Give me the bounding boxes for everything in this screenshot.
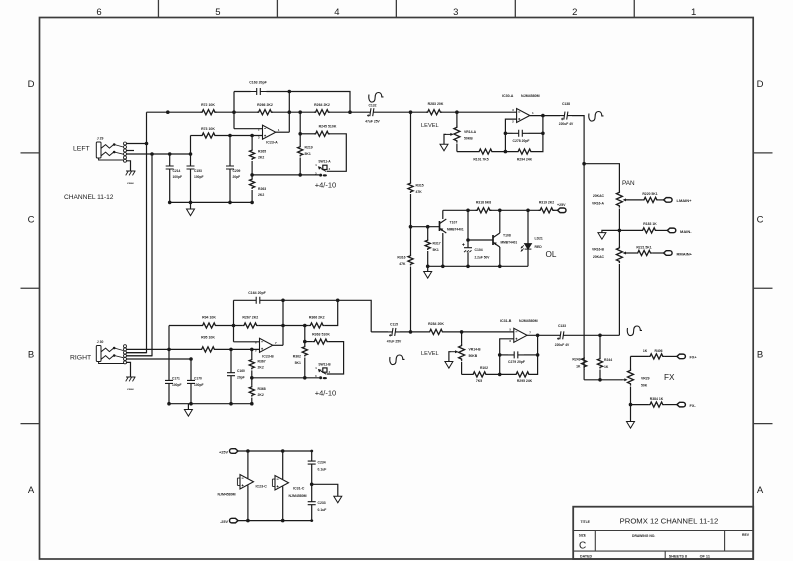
svg-text:20pF: 20pF: [237, 376, 245, 380]
svg-text:+25V: +25V: [557, 203, 566, 207]
svg-text:RMAIN+: RMAIN+: [677, 251, 693, 256]
svg-text:SW11-A: SW11-A: [318, 160, 331, 164]
svg-text:C: C: [28, 214, 35, 225]
svg-text:R384 1K: R384 1K: [650, 397, 664, 401]
svg-text:FX+: FX+: [690, 356, 698, 360]
svg-text:R406: R406: [654, 349, 662, 353]
svg-text:R368: R368: [258, 387, 266, 391]
svg-text:220uF 4V: 220uF 4V: [559, 122, 574, 126]
svg-text:R366 2K2: R366 2K2: [309, 316, 325, 320]
svg-text:R73 10K: R73 10K: [201, 127, 215, 131]
svg-text:47uF 25V: 47uF 25V: [387, 340, 402, 344]
svg-text:D: D: [757, 79, 764, 90]
svg-text:50KB: 50KB: [469, 354, 478, 358]
svg-text:IC31-B: IC31-B: [500, 319, 512, 323]
svg-text:R317: R317: [433, 242, 441, 246]
svg-text:1K: 1K: [576, 365, 581, 369]
svg-text:case: case: [127, 387, 134, 391]
svg-text:VR16-B: VR16-B: [592, 248, 605, 252]
svg-text:R220 5K1: R220 5K1: [642, 192, 657, 196]
svg-text:NJM4580M: NJM4580M: [218, 493, 236, 497]
svg-text:220uF 4V: 220uF 4V: [555, 343, 570, 347]
svg-text:FX: FX: [664, 373, 675, 382]
svg-text:5K1: 5K1: [433, 248, 439, 252]
svg-text:R362: R362: [293, 355, 301, 359]
svg-text:C233: C233: [318, 501, 326, 505]
svg-text:47uF 25V: 47uF 25V: [365, 120, 380, 124]
svg-text:R219: R219: [305, 146, 313, 150]
svg-text:2K2: 2K2: [258, 393, 264, 397]
svg-text:CHANNEL 11-12: CHANNEL 11-12: [64, 194, 114, 201]
svg-text:SIZE: SIZE: [579, 533, 586, 537]
svg-text:R318 6K8: R318 6K8: [476, 201, 491, 205]
svg-text:C104: C104: [475, 248, 483, 252]
svg-text:SHEETS 8: SHEETS 8: [669, 554, 687, 558]
svg-text:C160: C160: [237, 369, 245, 373]
svg-text:R102: R102: [480, 366, 488, 370]
svg-text:R244: R244: [604, 358, 612, 362]
svg-text:R266 2K2: R266 2K2: [257, 103, 273, 107]
svg-text:2: 2: [572, 7, 577, 18]
svg-text:-25V: -25V: [220, 520, 228, 524]
svg-text:1K: 1K: [643, 349, 648, 353]
svg-text:PROMX 12 CHANNEL 11-12: PROMX 12 CHANNEL 11-12: [620, 516, 719, 525]
svg-text:R367: R367: [258, 360, 266, 364]
svg-text:C209: C209: [233, 169, 241, 173]
svg-text:T107: T107: [450, 221, 458, 225]
svg-text:IC23-A: IC23-A: [266, 141, 278, 145]
svg-text:2K2: 2K2: [258, 366, 264, 370]
svg-text:OL: OL: [546, 250, 557, 259]
svg-text:C132: C132: [368, 104, 376, 108]
svg-text:C171: C171: [172, 377, 180, 381]
svg-text:C214: C214: [173, 169, 181, 173]
svg-text:R243: R243: [572, 358, 580, 362]
svg-text:C115: C115: [390, 322, 398, 326]
svg-text:R283 20K: R283 20K: [428, 102, 444, 106]
svg-text:5: 5: [215, 7, 220, 18]
svg-text:case: case: [127, 181, 134, 185]
svg-text:R221 5K1: R221 5K1: [636, 245, 651, 249]
svg-text:C163 20pF: C163 20pF: [249, 81, 267, 85]
svg-text:B: B: [28, 350, 34, 361]
svg-text:R294 24K: R294 24K: [517, 158, 533, 162]
svg-text:C133: C133: [558, 324, 566, 328]
svg-text:100pF: 100pF: [194, 383, 204, 387]
svg-text:C278 20pF: C278 20pF: [513, 139, 530, 143]
svg-text:20KAC: 20KAC: [593, 194, 605, 198]
svg-text:T108: T108: [503, 234, 511, 238]
svg-text:100pF: 100pF: [194, 175, 204, 179]
svg-text:VR16-A: VR16-A: [592, 202, 605, 206]
svg-text:C164 20pF: C164 20pF: [248, 291, 266, 295]
svg-text:NJM4580M: NJM4580M: [289, 494, 307, 498]
svg-text:5K1: 5K1: [305, 152, 311, 156]
svg-text:R315: R315: [416, 184, 424, 188]
svg-text:R245 510K: R245 510K: [319, 125, 337, 129]
svg-text:NJM4580M: NJM4580M: [521, 94, 540, 98]
svg-text:OF 11: OF 11: [700, 554, 710, 558]
svg-text:LEVEL: LEVEL: [421, 123, 439, 129]
svg-text:50KB: 50KB: [464, 137, 473, 141]
svg-text:7K5: 7K5: [476, 379, 482, 383]
svg-text:+4/-10: +4/-10: [315, 181, 336, 190]
svg-text:IC23-B: IC23-B: [262, 355, 274, 359]
svg-text:SW11-B: SW11-B: [318, 362, 331, 366]
svg-text:IC23-C: IC23-C: [256, 485, 268, 489]
svg-text:C234: C234: [318, 461, 326, 465]
svg-text:J 29: J 29: [97, 137, 104, 141]
svg-text:R363 510K: R363 510K: [312, 333, 330, 337]
svg-text:100pF: 100pF: [173, 175, 183, 179]
svg-text:R316: R316: [397, 256, 405, 260]
svg-text:MMBT4401: MMBT4401: [501, 241, 518, 245]
svg-text:2K2: 2K2: [258, 193, 264, 197]
svg-text:R284 20K: R284 20K: [428, 322, 444, 326]
svg-text:D: D: [28, 79, 35, 90]
svg-text:VR14-B: VR14-B: [469, 348, 482, 352]
svg-text:C153: C153: [194, 169, 202, 173]
svg-text:C170: C170: [194, 377, 202, 381]
svg-text:20KAC: 20KAC: [593, 255, 605, 259]
svg-text:IC31-C: IC31-C: [293, 487, 305, 491]
svg-text:R264 2K2: R264 2K2: [314, 103, 330, 107]
svg-text:MMBT4401: MMBT4401: [447, 228, 464, 232]
svg-text:5K1: 5K1: [295, 361, 301, 365]
svg-text:3: 3: [453, 7, 458, 18]
svg-text:R265: R265: [258, 150, 266, 154]
svg-text:1K: 1K: [604, 365, 609, 369]
svg-text:0.1uF: 0.1uF: [318, 508, 327, 512]
svg-text:TITLE: TITLE: [581, 520, 591, 524]
svg-text:J 30: J 30: [97, 340, 104, 344]
svg-text:R319 2K2: R319 2K2: [539, 201, 554, 205]
svg-text:+25V: +25V: [219, 450, 228, 454]
svg-text:47K: 47K: [399, 262, 406, 266]
svg-text:R263: R263: [258, 187, 266, 191]
svg-text:NJM4580M: NJM4580M: [519, 319, 538, 323]
svg-text:47K: 47K: [416, 190, 423, 194]
svg-text:MAIN-: MAIN-: [680, 229, 692, 234]
svg-text:+4/-10: +4/-10: [315, 389, 336, 398]
svg-text:50K: 50K: [641, 384, 648, 388]
svg-text:A: A: [28, 485, 35, 496]
svg-text:C: C: [579, 541, 586, 552]
svg-text:0.1uF: 0.1uF: [318, 468, 327, 472]
svg-text:1: 1: [691, 7, 696, 18]
svg-text:PAN: PAN: [622, 180, 635, 187]
svg-text:R267 2K2: R267 2K2: [242, 316, 258, 320]
svg-text:DATED: DATED: [580, 554, 593, 558]
svg-text:4: 4: [334, 7, 339, 18]
svg-text:2.2uF 50V: 2.2uF 50V: [475, 256, 491, 260]
svg-text:R95 10K: R95 10K: [201, 335, 215, 339]
svg-text:DRAWING NO.: DRAWING NO.: [632, 534, 655, 538]
svg-text:B: B: [757, 350, 763, 361]
svg-text:RIGHT: RIGHT: [70, 355, 91, 362]
svg-text:R183 1K: R183 1K: [643, 222, 657, 226]
svg-text:LEVEL: LEVEL: [421, 351, 439, 357]
svg-text:LEFT: LEFT: [73, 146, 90, 153]
svg-text:R295 24K: R295 24K: [517, 379, 533, 383]
svg-text:REV: REV: [742, 533, 750, 537]
svg-text:VR29: VR29: [641, 377, 650, 381]
svg-text:C138: C138: [562, 102, 570, 106]
svg-text:R72 10K: R72 10K: [201, 103, 215, 107]
svg-text:6: 6: [96, 7, 101, 18]
svg-text:RED: RED: [535, 245, 543, 249]
svg-text:LD21: LD21: [535, 237, 543, 241]
svg-text:C279 20pF: C279 20pF: [508, 360, 525, 364]
svg-text:FX-: FX-: [690, 404, 697, 408]
svg-text:R101 7K5: R101 7K5: [473, 158, 488, 162]
svg-text:LMAIN+: LMAIN+: [677, 198, 693, 203]
svg-text:R94 10K: R94 10K: [202, 316, 216, 320]
svg-text:100pF: 100pF: [172, 383, 182, 387]
svg-text:20pF: 20pF: [233, 175, 241, 179]
svg-text:2K2: 2K2: [258, 156, 264, 160]
svg-text:A: A: [757, 485, 764, 496]
svg-text:C: C: [757, 214, 764, 225]
svg-text:VR14-A: VR14-A: [464, 130, 477, 134]
svg-text:IC30-A: IC30-A: [502, 94, 514, 98]
